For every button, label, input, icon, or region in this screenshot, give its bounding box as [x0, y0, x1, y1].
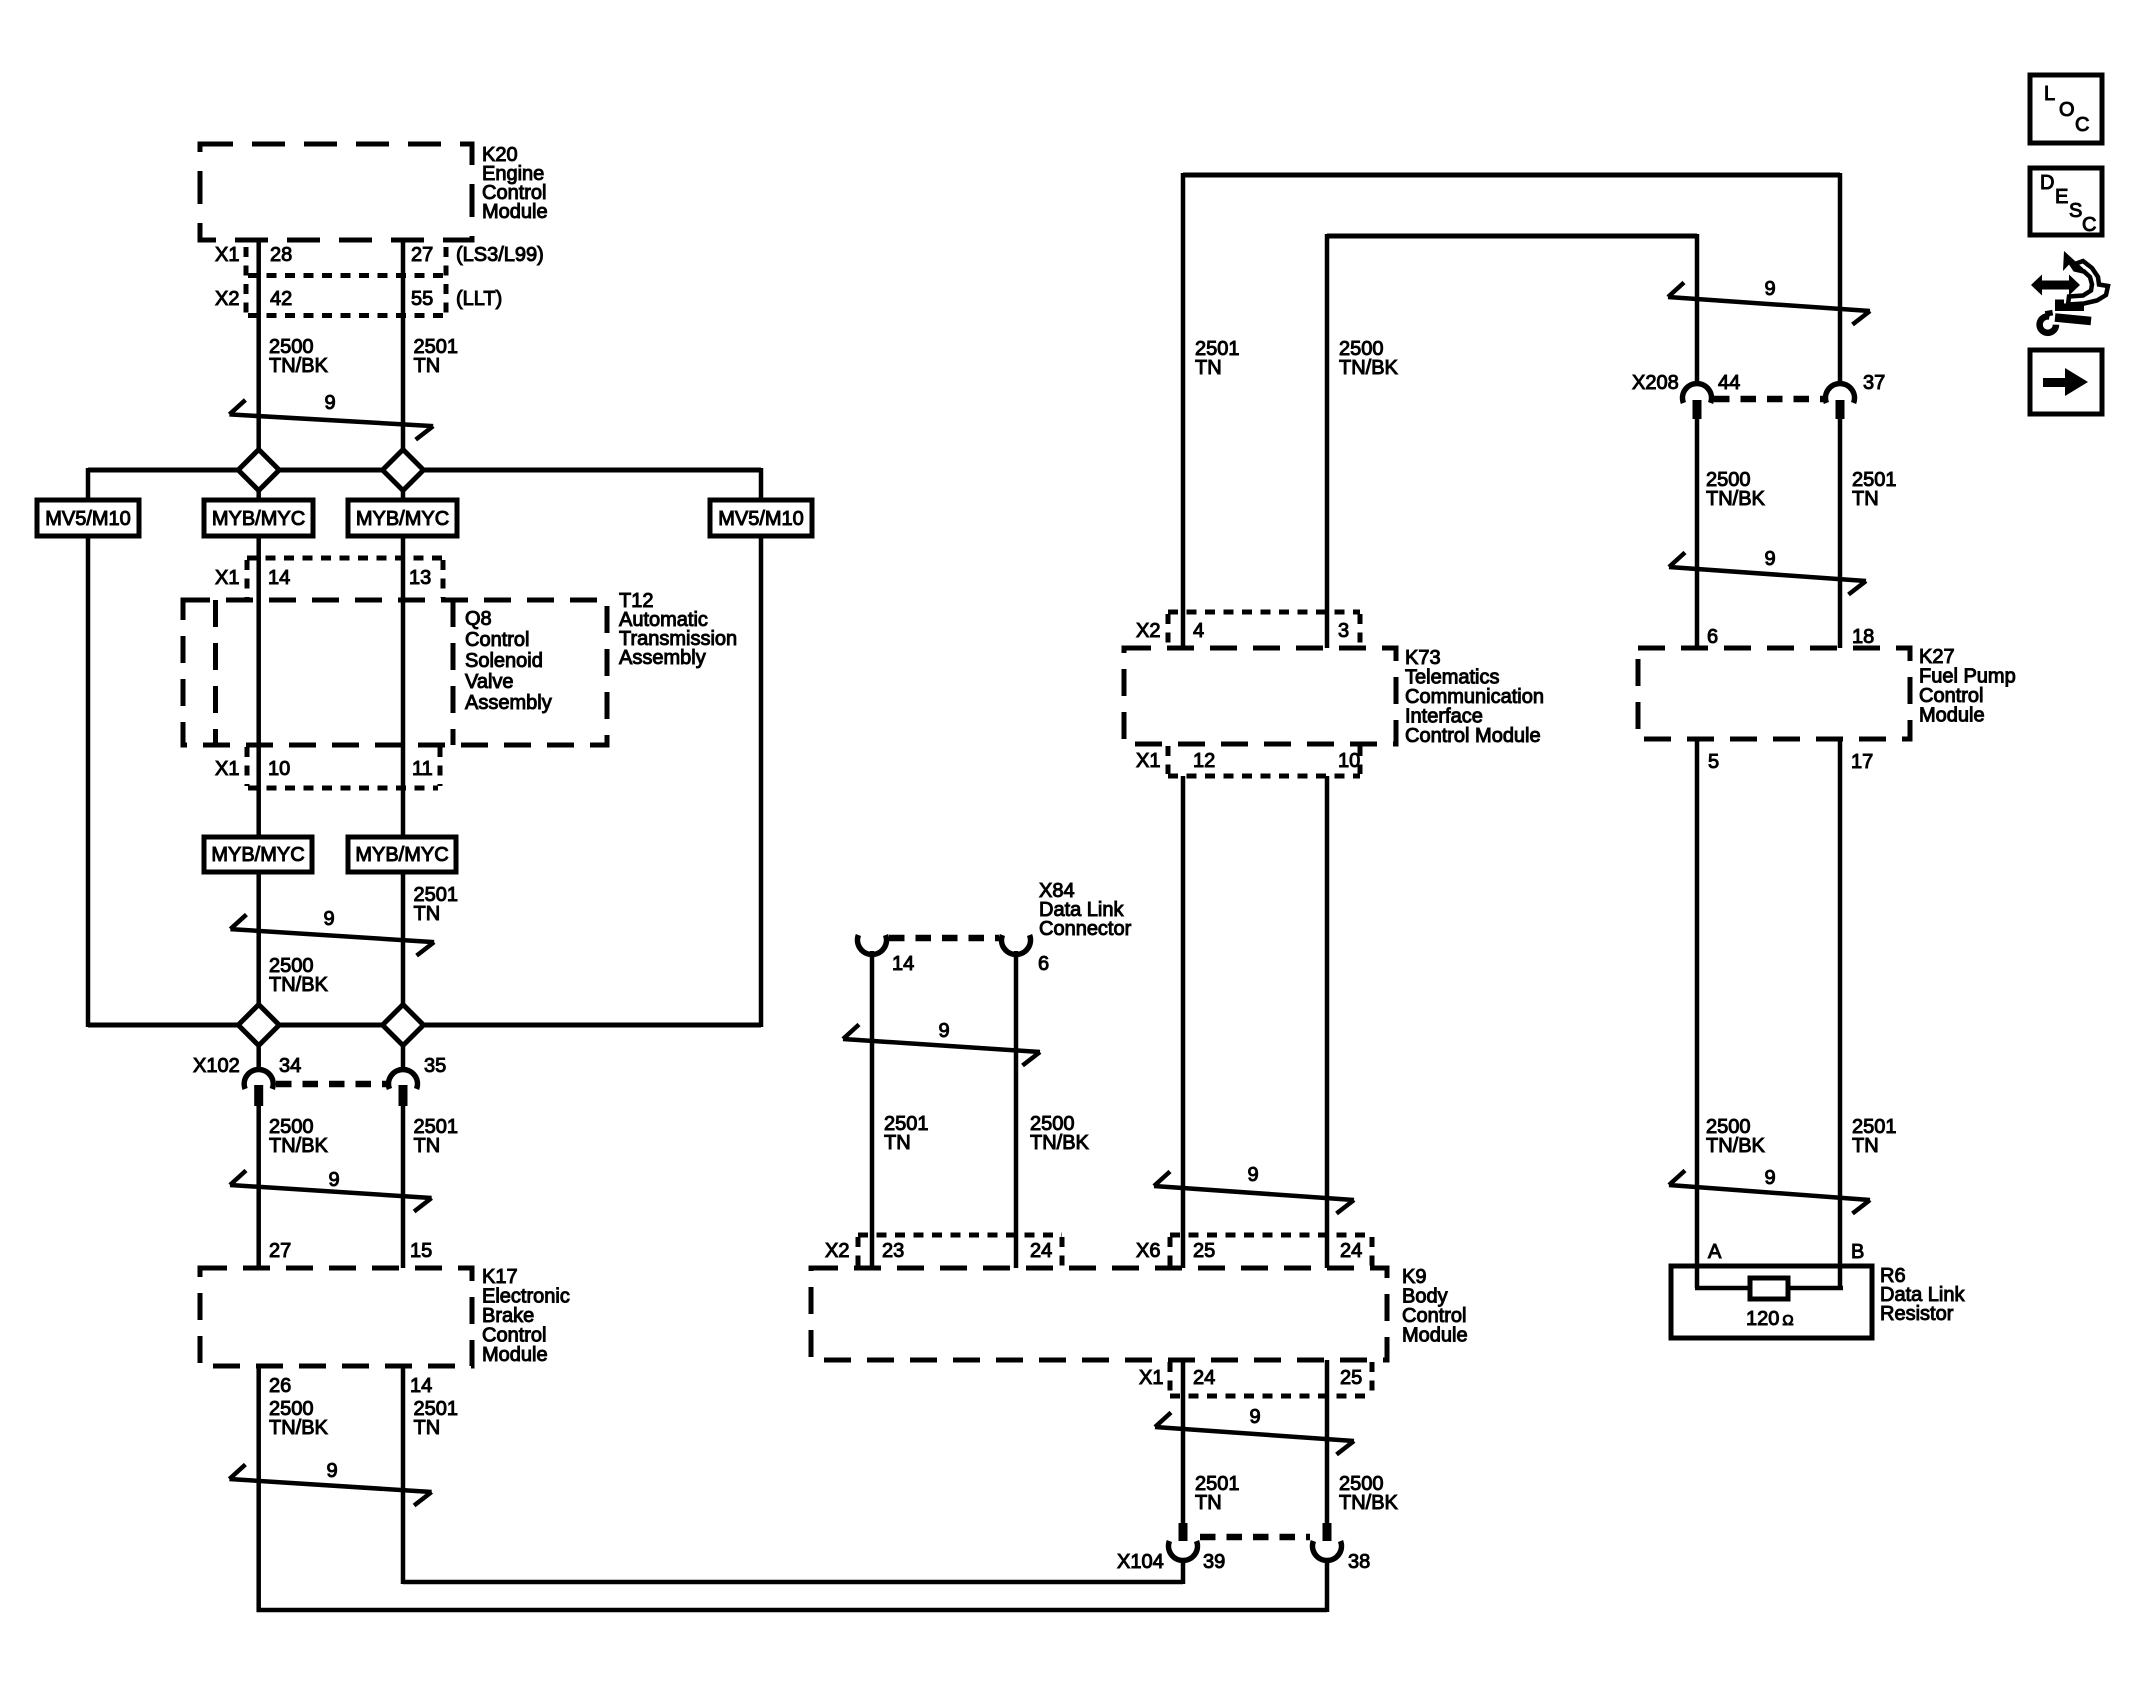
svg-text:X1: X1 [215, 567, 239, 589]
svg-text:TN/BK: TN/BK [269, 974, 329, 996]
svg-text:Module: Module [1919, 705, 1985, 727]
svg-text:MV5/M10: MV5/M10 [718, 508, 804, 530]
svg-text:Module: Module [1402, 1325, 1468, 1347]
svg-text:TN: TN [1195, 357, 1222, 379]
svg-text:Q8: Q8 [465, 608, 492, 630]
svg-text:X2: X2 [1136, 620, 1160, 642]
svg-text:A: A [1708, 1241, 1722, 1263]
svg-text:14: 14 [268, 567, 290, 589]
svg-text:10: 10 [1338, 750, 1360, 772]
svg-text:35: 35 [424, 1055, 446, 1077]
svg-text:24: 24 [1340, 1240, 1362, 1262]
svg-text:9: 9 [1764, 1167, 1775, 1189]
svg-text:TN: TN [414, 355, 441, 377]
svg-text:9: 9 [326, 1460, 337, 1482]
svg-text:TN: TN [1852, 1135, 1879, 1157]
svg-text:6: 6 [1707, 626, 1718, 648]
svg-text:37: 37 [1863, 372, 1885, 394]
svg-text:TN/BK: TN/BK [1706, 488, 1766, 510]
svg-text:Connector: Connector [1039, 918, 1132, 940]
svg-text:27: 27 [269, 1240, 291, 1262]
svg-text:O: O [2059, 99, 2075, 121]
svg-text:26: 26 [269, 1375, 291, 1397]
svg-text:L: L [2044, 83, 2055, 105]
svg-text:TN: TN [1195, 1492, 1222, 1514]
svg-text:(LS3/L99): (LS3/L99) [456, 244, 544, 266]
svg-text:X1: X1 [215, 244, 239, 266]
svg-text:Module: Module [482, 1344, 548, 1366]
svg-text:14: 14 [410, 1375, 432, 1397]
svg-text:9: 9 [1247, 1164, 1258, 1186]
svg-text:9: 9 [1764, 548, 1775, 570]
svg-text:9: 9 [938, 1020, 949, 1042]
svg-text:25: 25 [1193, 1240, 1215, 1262]
svg-text:4: 4 [1193, 620, 1204, 642]
svg-text:D: D [2040, 172, 2054, 194]
svg-text:12: 12 [1193, 750, 1215, 772]
svg-text:TN/BK: TN/BK [269, 1417, 329, 1439]
svg-text:Control Module: Control Module [1405, 725, 1541, 747]
svg-text:18: 18 [1852, 626, 1874, 648]
svg-text:MYB/MYC: MYB/MYC [356, 508, 449, 530]
svg-text:X1: X1 [1136, 750, 1160, 772]
svg-text:X104: X104 [1117, 1551, 1164, 1573]
svg-text:TN/BK: TN/BK [1339, 1492, 1399, 1514]
svg-text:X208: X208 [1632, 372, 1679, 394]
svg-text:C: C [2075, 114, 2089, 136]
svg-text:9: 9 [324, 392, 335, 414]
svg-text:55: 55 [411, 288, 433, 310]
svg-text:TN/BK: TN/BK [269, 355, 329, 377]
svg-text:24: 24 [1030, 1240, 1052, 1262]
svg-text:TN: TN [884, 1132, 911, 1154]
svg-text:TN: TN [414, 1417, 441, 1439]
svg-text:39: 39 [1203, 1551, 1225, 1573]
svg-text:34: 34 [279, 1055, 301, 1077]
svg-text:TN: TN [414, 1135, 441, 1157]
svg-text:9: 9 [1249, 1406, 1260, 1428]
svg-text:B: B [1851, 1241, 1864, 1263]
svg-text:25: 25 [1340, 1367, 1362, 1389]
svg-text:27: 27 [411, 244, 433, 266]
svg-text:E: E [2055, 186, 2068, 208]
svg-text:38: 38 [1348, 1551, 1370, 1573]
svg-text:TN/BK: TN/BK [269, 1135, 329, 1157]
svg-text:14: 14 [892, 953, 914, 975]
svg-text:5: 5 [1708, 751, 1719, 773]
svg-text:28: 28 [270, 244, 292, 266]
svg-text:15: 15 [410, 1240, 432, 1262]
svg-text:MYB/MYC: MYB/MYC [211, 844, 304, 866]
svg-text:S: S [2069, 200, 2082, 222]
svg-text:TN/BK: TN/BK [1706, 1135, 1766, 1157]
svg-text:X102: X102 [193, 1055, 240, 1077]
svg-text:MV5/M10: MV5/M10 [45, 508, 131, 530]
svg-text:X6: X6 [1136, 1240, 1160, 1262]
svg-text:X2: X2 [825, 1240, 849, 1262]
svg-text:9: 9 [1764, 278, 1775, 300]
svg-text:Valve: Valve [465, 671, 514, 693]
svg-text:11: 11 [412, 758, 433, 780]
svg-text:10: 10 [268, 758, 290, 780]
svg-text:TN: TN [1852, 488, 1879, 510]
svg-text:X2: X2 [215, 288, 239, 310]
svg-text:X1: X1 [215, 758, 239, 780]
svg-text:(LLT): (LLT) [456, 288, 502, 310]
svg-text:Assembly: Assembly [465, 692, 552, 714]
svg-text:Assembly: Assembly [619, 647, 706, 669]
svg-text:Control: Control [465, 629, 529, 651]
svg-text:TN/BK: TN/BK [1339, 357, 1399, 379]
svg-text:TN: TN [414, 903, 441, 925]
svg-text:13: 13 [409, 567, 431, 589]
svg-text:Solenoid: Solenoid [465, 650, 543, 672]
svg-text:C: C [2082, 214, 2096, 236]
svg-text:9: 9 [323, 908, 334, 930]
svg-text:9: 9 [328, 1169, 339, 1191]
svg-text:X1: X1 [1139, 1367, 1163, 1389]
svg-text:Resistor: Resistor [1880, 1303, 1954, 1325]
svg-text:24: 24 [1193, 1367, 1215, 1389]
svg-text:120Ω: 120Ω [1746, 1308, 1794, 1330]
svg-text:23: 23 [882, 1240, 904, 1262]
svg-text:Module: Module [482, 201, 548, 223]
svg-text:44: 44 [1718, 372, 1740, 394]
svg-text:MYB/MYC: MYB/MYC [355, 844, 448, 866]
svg-text:17: 17 [1851, 751, 1873, 773]
svg-text:3: 3 [1338, 620, 1349, 642]
svg-text:MYB/MYC: MYB/MYC [212, 508, 305, 530]
svg-text:42: 42 [270, 288, 292, 310]
svg-text:TN/BK: TN/BK [1030, 1132, 1090, 1154]
svg-text:6: 6 [1038, 953, 1049, 975]
